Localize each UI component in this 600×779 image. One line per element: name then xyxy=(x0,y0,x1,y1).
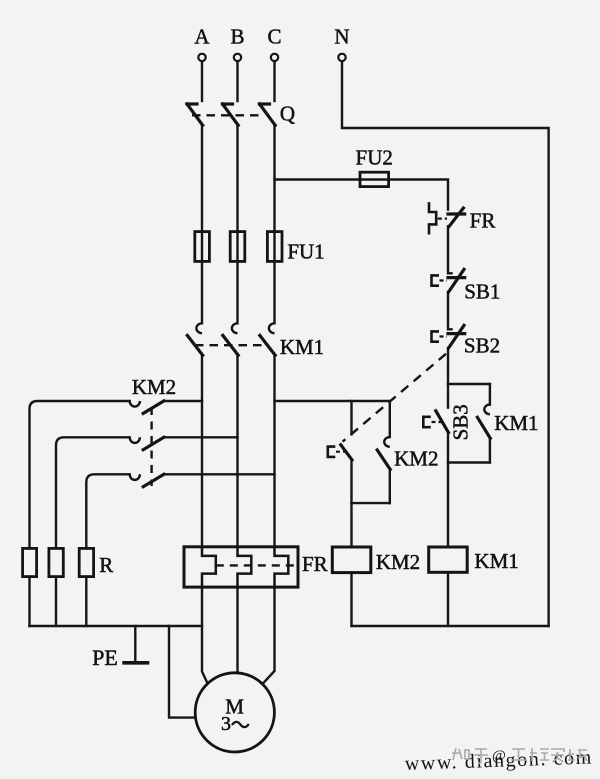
svg-text:N: N xyxy=(334,25,349,49)
svg-text:SB1: SB1 xyxy=(464,280,500,304)
svg-text:KM2: KM2 xyxy=(132,375,176,399)
svg-text:R: R xyxy=(99,553,113,577)
svg-text:SB3: SB3 xyxy=(449,404,473,440)
svg-text:FR: FR xyxy=(302,552,328,576)
svg-text:@: @ xyxy=(492,748,506,764)
svg-text:FU2: FU2 xyxy=(356,146,393,170)
svg-text:FU1: FU1 xyxy=(287,240,324,264)
svg-text:3: 3 xyxy=(221,713,231,735)
svg-text:FR: FR xyxy=(470,209,496,233)
svg-text:A: A xyxy=(194,25,210,49)
svg-text:KM1: KM1 xyxy=(280,335,324,359)
svg-text:KM1: KM1 xyxy=(494,411,538,435)
svg-text:PE: PE xyxy=(92,645,118,670)
svg-text:C: C xyxy=(267,25,281,49)
svg-text:Q: Q xyxy=(280,102,295,126)
svg-text:KM2: KM2 xyxy=(394,447,438,471)
svg-text:SB2: SB2 xyxy=(464,334,500,358)
svg-text:B: B xyxy=(230,25,244,49)
svg-text:KM1: KM1 xyxy=(474,549,518,573)
svg-text:KM2: KM2 xyxy=(376,550,420,574)
